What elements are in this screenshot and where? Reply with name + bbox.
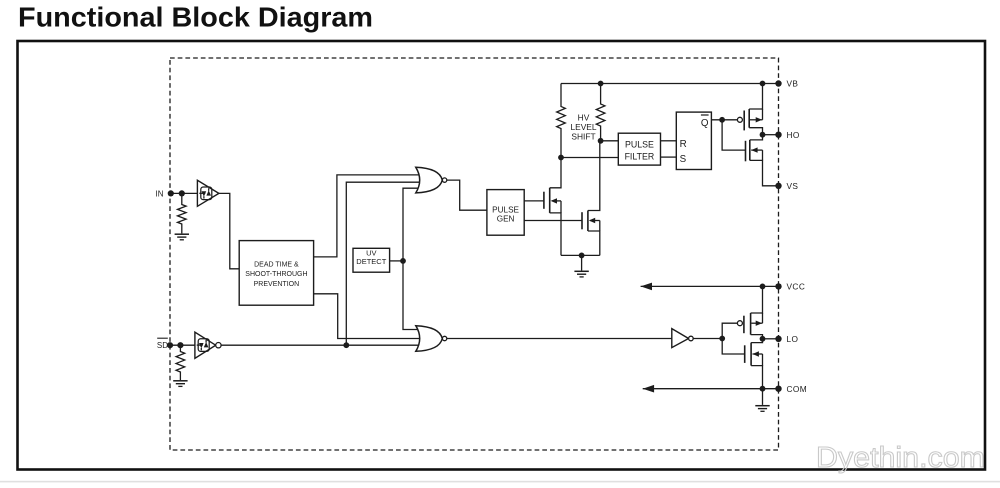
svg-text:S: S <box>680 154 687 165</box>
block DEAD TIME & SHOOT-THROUGH PREVENTION <box>239 241 313 306</box>
node IN resistor junction <box>179 190 185 196</box>
ground level-shift <box>574 270 588 272</box>
resistor R-LS2 (right HV) <box>596 84 605 141</box>
svg-text:IN: IN <box>156 189 164 198</box>
svg-text:Q: Q <box>701 118 709 129</box>
node right resistor bottom (R node) <box>598 138 604 144</box>
node latch output junction <box>719 117 725 123</box>
wire SD line to lower gate <box>221 344 420 346</box>
resistor R-IN pulldown <box>178 193 187 233</box>
transistor QN-LO arrow <box>753 353 763 355</box>
block UV DETECT <box>353 248 390 272</box>
IC dashed boundary box <box>170 58 779 450</box>
wire to QP-LO gate <box>722 323 737 338</box>
svg-text:SD: SD <box>157 341 168 350</box>
svg-text:SHOOT-THROUGH: SHOOT-THROUGH <box>245 271 307 278</box>
resistor R-SD pulldown <box>176 345 185 380</box>
wire LO node to pin <box>763 338 779 340</box>
wire SD branch up to upper gate <box>346 182 420 345</box>
ground IN resistor <box>175 233 189 235</box>
wire upper gate output to pulse gen <box>447 180 487 210</box>
wire UV detect output <box>390 260 403 262</box>
wire VCC rail <box>641 285 779 287</box>
transistor M1 gate bar <box>543 192 545 209</box>
svg-text:Dyethin.com: Dyethin.com <box>816 442 985 474</box>
node level-shift ground junction <box>579 253 585 259</box>
transistor QN-HO arrow <box>751 149 762 151</box>
wire dead-time bottom output to lower gate <box>314 294 420 339</box>
svg-text:GEN: GEN <box>497 215 515 224</box>
wire S node to pulse filter <box>561 157 618 159</box>
wire UV rail to upper gate <box>403 188 420 261</box>
wire lower gate output to inverter <box>447 338 672 340</box>
transistor M1 channel bar <box>549 188 551 213</box>
svg-text:VS: VS <box>787 181 799 191</box>
svg-text:FILTER: FILTER <box>625 151 655 161</box>
transistor QP-HO source tap to VB <box>749 84 762 110</box>
resistor R-LS1 (left HV) <box>557 84 566 158</box>
transistor QP-HO gate bar <box>743 111 745 131</box>
wire dead-time top output to upper gate <box>314 175 421 257</box>
svg-text:HO: HO <box>787 130 800 140</box>
arrow VCC rail <box>641 283 652 291</box>
svg-text:HV: HV <box>578 112 590 122</box>
transistor M2 gate bar <box>581 212 583 229</box>
wire VB top rail <box>561 83 779 85</box>
wire SD to inverter <box>170 344 200 346</box>
gate NOR lower (low side) <box>416 326 443 352</box>
node LO junction <box>760 336 766 342</box>
node left resistor bottom (S node) <box>558 155 564 161</box>
wire IN buffer output to dead-time box <box>219 193 239 268</box>
svg-text:SHIFT: SHIFT <box>571 132 595 142</box>
wire pulse gen top output to M1 gate <box>524 200 544 202</box>
transistor M2 drain tap <box>588 141 600 211</box>
wire latch output <box>711 119 737 121</box>
svg-text:R: R <box>680 139 687 150</box>
arrow COM rail <box>643 385 654 393</box>
gate NOR upper (high side) <box>416 167 443 193</box>
node inverter output junction <box>719 336 725 342</box>
node VCC rail junction <box>760 284 766 290</box>
pin VB dot <box>775 80 781 86</box>
transistor QP-LO source tap to VCC <box>751 286 763 313</box>
svg-text:LO: LO <box>787 334 799 344</box>
transistor M1 drain tap <box>550 158 561 188</box>
pin SD dot <box>167 342 173 348</box>
transistor QP-LO drain tap to LO <box>751 335 763 339</box>
transistor QN-HO drain tap to HO node <box>750 135 763 140</box>
inverter LO driver <box>672 329 689 348</box>
block PULSE GEN <box>487 190 524 236</box>
pin IN dot <box>168 190 174 196</box>
transistor M2 channel bar <box>587 211 589 232</box>
schmitt inverter SD (U-SD) <box>195 332 216 358</box>
wire pulse filter R output <box>661 140 677 142</box>
transistor QN-LO source tap to COM <box>751 366 762 389</box>
svg-text:DETECT: DETECT <box>356 257 386 266</box>
schmitt buffer IN (U-IN) <box>197 180 219 206</box>
transistor QP-HO drain tap to HO <box>749 128 762 135</box>
block PULSE FILTER <box>618 133 660 165</box>
svg-text:PULSE: PULSE <box>492 205 519 214</box>
node COM junction <box>760 386 766 392</box>
wire level-shift common source rail <box>561 254 600 256</box>
svg-text:PULSE: PULSE <box>625 140 654 150</box>
node HO junction <box>760 132 766 138</box>
pin VS dot <box>775 183 781 189</box>
transistor M2 arrow <box>590 220 600 222</box>
transistor M1 arrow <box>552 200 561 202</box>
transistor QP-LO gate bar <box>743 316 745 334</box>
transistor QP-HO gate bubble <box>737 117 742 122</box>
transistor QN-HO source tap to VS <box>750 160 779 185</box>
wire latch to QN-HO gate <box>722 120 745 150</box>
transistor M1 source tap <box>550 213 561 256</box>
transistor QN-LO gate bar <box>744 345 746 363</box>
transistor QP-HO channel bar <box>748 109 750 128</box>
wire UV rail to lower gate <box>403 261 420 330</box>
node UV junction <box>400 258 406 264</box>
svg-text:PREVENTION: PREVENTION <box>254 281 300 288</box>
transistor QN-LO drain tap to LO node <box>751 339 762 343</box>
wire pulse filter S output <box>661 156 677 158</box>
node SD branch junction <box>343 342 349 348</box>
transistor QN-HO channel bar <box>749 140 751 161</box>
wire pulse gen bottom output to M2 gate <box>524 220 582 222</box>
wire inverter output <box>693 338 722 340</box>
pin LO dot <box>775 336 781 342</box>
wire ground stem <box>581 255 583 270</box>
svg-text:VB: VB <box>787 79 799 89</box>
wire COM ground stem <box>762 389 764 405</box>
ground SD resistor <box>173 380 187 382</box>
pin VCC dot <box>775 283 781 289</box>
svg-text:COM: COM <box>787 384 808 394</box>
transistor QP-LO channel bar <box>750 313 752 335</box>
node right resistor top junction <box>598 81 604 87</box>
wire IN to buffer <box>171 192 203 194</box>
wire HO node to pin <box>763 134 779 136</box>
wire COM rail <box>643 388 779 390</box>
node VB rail junction <box>760 81 766 87</box>
svg-text:LEVEL: LEVEL <box>570 122 596 132</box>
transistor QP-HO arrow <box>750 119 763 121</box>
transistor QP-LO arrow <box>751 322 762 324</box>
svg-text:DEAD TIME &: DEAD TIME & <box>254 262 299 269</box>
wire R node to pulse filter <box>601 140 619 142</box>
transistor QP-LO gate bubble <box>737 321 742 326</box>
pin HO dot <box>775 132 781 138</box>
pin COM dot <box>775 386 781 392</box>
ground COM <box>755 405 769 407</box>
svg-text:Functional Block Diagram: Functional Block Diagram <box>18 2 373 33</box>
node SD resistor junction <box>177 342 183 348</box>
transistor QN-LO channel bar <box>750 343 752 366</box>
transistor M2 source tap <box>588 231 600 255</box>
block RS latch <box>676 112 711 169</box>
bottom faint page line <box>0 481 1000 483</box>
transistor QN-HO gate bar <box>745 141 747 162</box>
wire to QN-LO gate <box>722 339 745 355</box>
svg-text:VCC: VCC <box>787 282 806 292</box>
